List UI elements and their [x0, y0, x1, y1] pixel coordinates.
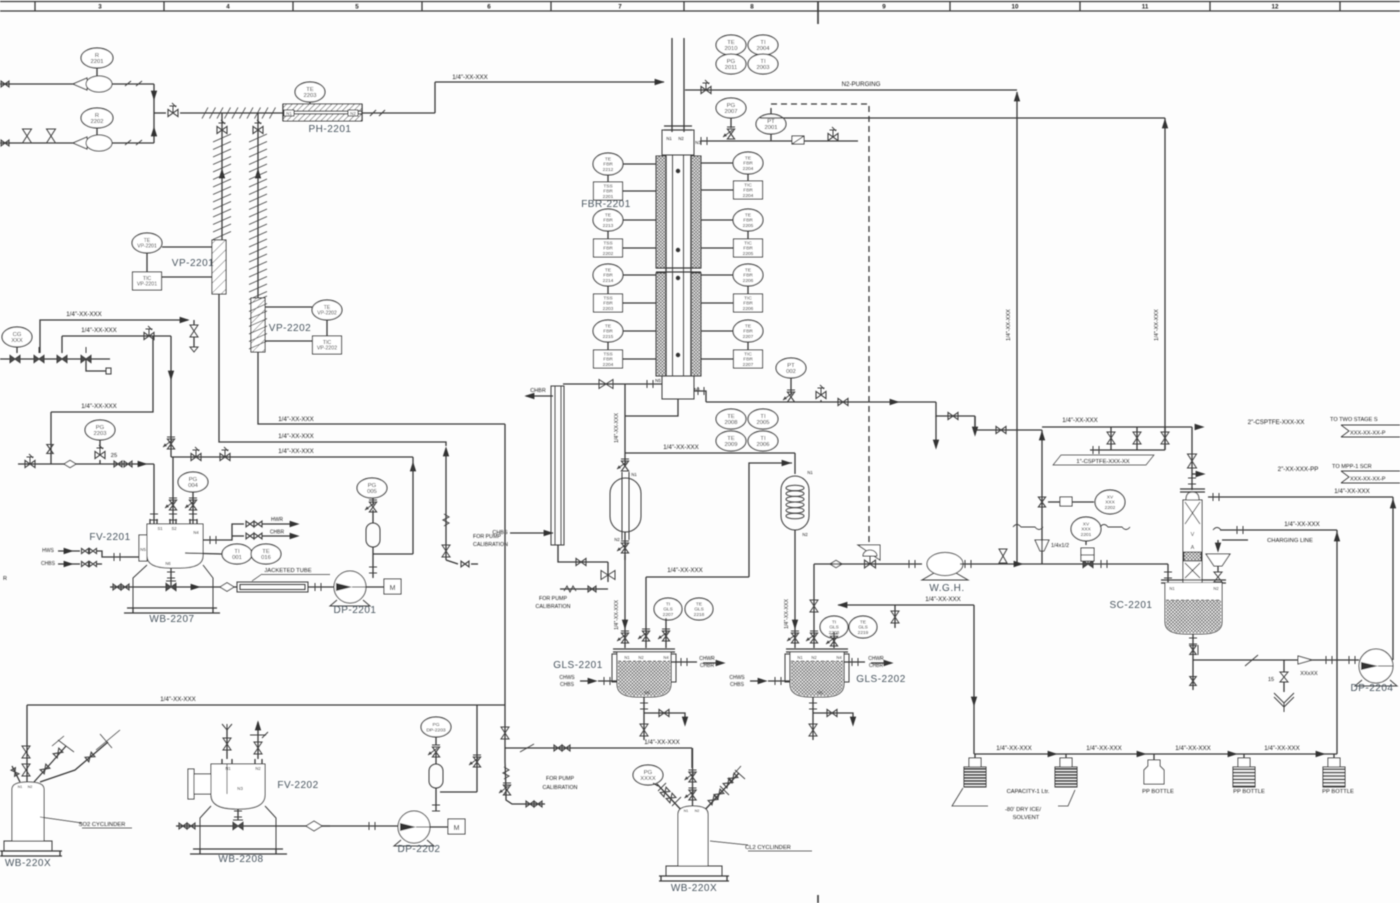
wire to DP-2202 — [322, 822, 398, 830]
transfer line from VP-2202 — [258, 352, 505, 424]
svg-text:TE: TE — [727, 40, 735, 46]
svg-text:4: 4 — [226, 4, 230, 11]
vaporizer VP-2201 — [212, 240, 226, 294]
metering pump DP-2201 — [330, 571, 370, 606]
svg-text:FBR: FBR — [743, 357, 753, 363]
pressure regulator on N3 line — [792, 136, 804, 144]
reactor column section 2 right wall — [691, 273, 701, 376]
CL2 cylinder base — [659, 866, 729, 881]
svg-text:N1: N1 — [631, 472, 637, 477]
instrument bubble TE GLS 2218 — [685, 598, 713, 620]
svg-text:2213: 2213 — [603, 223, 614, 229]
flag to two stage scrubber — [1330, 417, 1400, 437]
coil inside GLS-2202 condenser — [786, 485, 804, 519]
svg-text:M: M — [390, 585, 396, 592]
svg-text:1/4"-XX-XXX: 1/4"-XX-XXX — [925, 596, 961, 603]
flow arrow on bottle header — [1048, 751, 1058, 757]
valve above GLS-2201 condenser — [617, 459, 629, 471]
svg-text:TIC: TIC — [744, 240, 752, 246]
reactor bottom head — [655, 376, 700, 399]
instrument box TIC FBR 2207 — [701, 342, 763, 368]
WB-2207 discharge line — [110, 581, 237, 591]
rotated pipe label GLS-2202 inlet — [784, 599, 790, 629]
pipe label bottle row 4 — [1264, 745, 1300, 752]
valves on GLS-2201 spare nozzles — [638, 577, 670, 648]
reactor section flange — [656, 268, 701, 272]
drain valve on bottoms line — [1274, 660, 1294, 712]
vent header — [1042, 417, 1192, 427]
svg-text:2219: 2219 — [858, 630, 869, 636]
svg-text:FBR: FBR — [603, 246, 613, 252]
WB-2208 discharge line — [176, 820, 330, 831]
svg-text:XXX-XX-XX-P: XXX-XX-XX-P — [1350, 477, 1386, 483]
svg-text:1/4"-XX-XXX: 1/4"-XX-XXX — [644, 739, 680, 746]
svg-text:TE: TE — [605, 212, 611, 218]
relief valve on N3 line — [828, 127, 838, 141]
svg-text:11: 11 — [1142, 4, 1149, 11]
relief valve right of PT 002 — [816, 385, 826, 399]
condenser of GLS-2202 with coil — [781, 470, 813, 537]
bottle header line — [974, 753, 1337, 755]
instrument bubble TI GLS 2208 — [820, 616, 848, 638]
svg-text:FBR: FBR — [603, 162, 613, 168]
reactor center tube — [666, 155, 691, 376]
valve pair on R-2202 inlet — [23, 129, 56, 143]
control valve on feed header — [168, 103, 178, 117]
wire W.G.H. discharge — [960, 549, 1165, 568]
label DP-2201 — [334, 605, 377, 616]
svg-text:XXxXX: XXxXX — [1300, 671, 1318, 677]
svg-text:N1: N1 — [286, 111, 292, 116]
label WB-220X center — [671, 883, 717, 894]
bypass line between GLS trains — [646, 567, 749, 577]
svg-text:CHBS: CHBS — [560, 682, 575, 688]
rotameter R-2201 — [73, 76, 112, 92]
svg-text:N5: N5 — [140, 547, 146, 552]
svg-text:SOLVENT: SOLVENT — [1013, 815, 1040, 821]
metering pump DP-2202 — [394, 811, 434, 846]
wire second line to bottles — [1334, 530, 1340, 754]
manifold drop from SO2 line — [469, 705, 481, 792]
SO2 cylinder branch valves — [11, 730, 120, 782]
svg-text:CHBR: CHBR — [530, 388, 546, 394]
instrument bubble PG 2203 — [85, 420, 115, 448]
svg-text:FBR: FBR — [603, 301, 613, 307]
wire GLS-2202 CHWS inlet — [750, 677, 790, 685]
svg-text:N1: N1 — [624, 655, 630, 660]
svg-text:FBR: FBR — [603, 329, 613, 335]
svg-text:2203: 2203 — [603, 306, 614, 312]
instrument bubble PG DP-2203 — [421, 717, 451, 745]
svg-text:R: R — [95, 113, 99, 119]
svg-text:1/4"-XX-XXX: 1/4"-XX-XXX — [996, 745, 1032, 752]
svg-text:CL2 CYCLINDER: CL2 CYCLINDER — [745, 845, 791, 851]
motor box M DP-2202 — [430, 819, 465, 834]
dewar bottle 2 — [1055, 754, 1077, 787]
svg-text:2206: 2206 — [743, 278, 754, 284]
valve below PG 2007 — [723, 127, 735, 139]
svg-text:5: 5 — [355, 4, 359, 11]
svg-text:CHBR: CHBR — [869, 663, 884, 669]
svg-text:2007: 2007 — [725, 109, 738, 115]
wire second side line — [1013, 521, 1337, 534]
charging funnel — [1206, 554, 1230, 583]
instrument bubble XV XXX 2201 — [1071, 517, 1101, 545]
wire feed header to PH-2201 — [180, 112, 284, 114]
svg-text:TIC: TIC — [744, 182, 752, 188]
svg-text:VP-2201: VP-2201 — [172, 258, 214, 269]
svg-text:2207: 2207 — [743, 362, 754, 368]
transfer line from VP-2201 — [219, 294, 449, 456]
svg-text:TE: TE — [745, 323, 751, 329]
instrument bubble TE FBR 2214 — [593, 264, 656, 286]
svg-text:TIC: TIC — [744, 351, 752, 357]
svg-text:FBR-2201: FBR-2201 — [581, 199, 631, 210]
riser 1/4-XX-XXX to PT line — [1154, 118, 1168, 450]
instrument bubble TE 2008 — [716, 409, 746, 429]
wire down to FV-2201 feed line — [47, 412, 53, 464]
wire GLS-2202 CHWR outlet — [844, 658, 894, 666]
svg-text:N4: N4 — [836, 655, 842, 660]
label SC-2201 — [1110, 600, 1153, 611]
wire SC-2201 bottoms — [1189, 634, 1198, 690]
instrument bubble TE 2009 — [716, 431, 746, 451]
svg-text:1/4"-XX-XXX: 1/4"-XX-XXX — [614, 600, 620, 630]
svg-text:2202: 2202 — [1105, 505, 1116, 511]
reactor column section 1 right wall — [691, 156, 701, 268]
label VP-2201 — [172, 258, 214, 269]
svg-text:N1: N1 — [666, 136, 672, 141]
svg-text:GLS: GLS — [663, 607, 673, 613]
instrument bubble TE FBR 2207 — [701, 320, 763, 342]
wire feed valve train — [163, 336, 175, 457]
label WB-2207 — [149, 614, 194, 625]
instrument box TIC FBR 2206 — [701, 286, 763, 312]
label CHBS into jacketed pipe — [492, 530, 553, 536]
svg-text:7: 7 — [618, 4, 622, 11]
label CL2 CYCLINDER — [710, 841, 812, 851]
condenser of GLS-2201 — [610, 472, 641, 542]
SO2 manifold line — [27, 696, 505, 705]
CL2 cylinder — [678, 806, 708, 866]
svg-text:N1: N1 — [807, 470, 813, 475]
labels CHWR CHBR right of GLS-2202 — [868, 656, 884, 669]
vertical jacketed pipe — [551, 386, 564, 562]
svg-text:CHBS: CHBS — [41, 561, 56, 567]
wire reactor N3 line — [700, 137, 858, 145]
instrument bubble TE 2010 — [716, 35, 746, 55]
wire N5 outlet to static mixer — [563, 380, 662, 389]
svg-text:VP-2202: VP-2202 — [269, 323, 311, 334]
weighing balance WB-2208 — [190, 806, 287, 854]
rotated pipe label GLS-2201 inlet — [614, 600, 620, 630]
label DP-2204 — [1351, 683, 1394, 694]
svg-text:N2: N2 — [614, 537, 620, 542]
valve above DP-2202 damper — [428, 745, 440, 757]
wire crossover down to GLS-2202 condenser — [794, 453, 796, 474]
wire column overhead — [1188, 427, 1197, 490]
svg-text:JACKETED TUBE: JACKETED TUBE — [264, 568, 311, 574]
DP-2201 suction drop leg — [412, 461, 414, 554]
svg-text:DP-2204: DP-2204 — [1351, 683, 1394, 694]
label GLS-2202 — [856, 674, 906, 685]
VP-2202 transfer downcomer — [501, 424, 509, 748]
svg-text:XV: XV — [1083, 521, 1090, 527]
svg-text:PG: PG — [96, 425, 105, 431]
svg-text:N1: N1 — [684, 809, 689, 813]
svg-text:PG: PG — [727, 103, 736, 109]
wire SO2 cylinder riser — [22, 705, 30, 783]
wire W.G.H. suction — [814, 560, 922, 568]
label WB-2208 — [218, 854, 263, 865]
wire jacketed tube to DP-2201 — [308, 583, 334, 591]
svg-text:GLS-2202: GLS-2202 — [856, 674, 906, 685]
label PP BOTTLE 2 — [1233, 789, 1265, 795]
svg-text:TI: TI — [760, 436, 766, 442]
pump calibration branch lower — [499, 748, 545, 807]
svg-text:XXX: XXX — [1105, 500, 1115, 506]
labels CHWS CHBS left of GLS-2201 — [559, 675, 575, 688]
wire feed line into R-2201 — [0, 81, 73, 87]
svg-text:1/4"-XX-XXX: 1/4"-XX-XXX — [1062, 417, 1098, 424]
wire CHBR return from jacketed pipe — [524, 388, 553, 399]
label WB-220X left — [5, 858, 51, 869]
vent drain legs — [933, 402, 978, 450]
instrument bubble TE FBR 2206 — [701, 264, 763, 286]
svg-text:2203: 2203 — [304, 93, 317, 99]
svg-text:TI: TI — [760, 414, 766, 420]
branch to MPP-1 scrubber — [1192, 466, 1318, 477]
svg-text:V: V — [1191, 532, 1195, 538]
svg-text:2010: 2010 — [725, 46, 738, 52]
reactor top tubes — [672, 38, 684, 132]
svg-text:SC-2201: SC-2201 — [1110, 600, 1153, 611]
svg-text:2207: 2207 — [663, 612, 674, 618]
W.G.H. riser to vent header — [1039, 430, 1045, 564]
wire PT line to right riser — [760, 117, 1165, 119]
svg-text:2215: 2215 — [603, 334, 614, 340]
instrument bubble TE FBR 2204 — [701, 152, 763, 174]
svg-text:002: 002 — [786, 369, 796, 375]
wire riser to reactor feed — [435, 79, 665, 113]
svg-text:CHWR: CHWR — [699, 656, 715, 662]
svg-text:CHWR: CHWR — [868, 656, 884, 662]
charging line arrow and label — [1215, 538, 1313, 553]
svg-text:N1: N1 — [797, 655, 803, 660]
svg-text:1/4"-XX-XXX: 1/4"-XX-XXX — [1334, 488, 1370, 495]
svg-text:1/4"-XX-XXX: 1/4"-XX-XXX — [1006, 309, 1012, 341]
reactor column section 1 left wall — [656, 156, 666, 268]
GLS-2201 drain branch — [644, 709, 688, 726]
svg-text:2"-XX-XXX-PP: 2"-XX-XXX-PP — [1278, 466, 1319, 473]
instrument bubble TI 2004 — [748, 35, 778, 55]
instrument bubble TE GLS 2219 — [849, 616, 877, 638]
wire GLS-2202 bottom outlet — [809, 697, 817, 740]
flow arrow on bottle header — [1316, 751, 1326, 757]
purge gas valve row — [0, 347, 110, 363]
instrument box TIC VP-2202 — [265, 320, 342, 354]
svg-text:2207: 2207 — [743, 334, 754, 340]
svg-text:WB-2207: WB-2207 — [149, 614, 194, 625]
wire GLS-2201 bottom outlet — [640, 697, 648, 740]
svg-text:1/4"-XX-XXX: 1/4"-XX-XXX — [1264, 745, 1300, 752]
instrument bubble CG XXX — [2, 327, 32, 353]
scrubber drum SC-2201 — [1161, 580, 1226, 634]
svg-text:2003: 2003 — [757, 65, 770, 71]
svg-text:1/4"-XX-XXX: 1/4"-XX-XXX — [452, 74, 488, 81]
instrument box TIC VP-2201 — [133, 253, 213, 290]
svg-text:R: R — [95, 53, 99, 59]
label FV-2202 — [277, 780, 318, 791]
svg-text:FBR: FBR — [603, 218, 613, 224]
svg-text:FBR: FBR — [743, 301, 753, 307]
DP-2202 calibration line — [440, 791, 477, 793]
svg-text:1/4"-XX-XXX: 1/4"-XX-XXX — [81, 403, 117, 410]
svg-text:2202: 2202 — [91, 119, 104, 125]
instrument bubble R 2202 — [81, 108, 113, 136]
svg-text:N6: N6 — [644, 690, 650, 695]
cone reducer — [1298, 656, 1312, 664]
SO2 cylinder — [12, 782, 44, 841]
svg-text:2001: 2001 — [765, 125, 778, 131]
svg-text:N1: N1 — [225, 766, 231, 771]
svg-text:TIC: TIC — [744, 295, 752, 301]
svg-text:S2: S2 — [171, 526, 177, 531]
collection bottle PP 5 — [1323, 754, 1345, 787]
instrument bubble PG 004 — [178, 472, 208, 498]
svg-text:XXX: XXX — [1081, 527, 1091, 533]
gas pump W.G.H. — [922, 553, 968, 581]
DP-2201 discharge damper — [366, 494, 413, 578]
svg-text:1/4"-XX-XXX: 1/4"-XX-XXX — [614, 413, 620, 443]
preheater PH-2201 — [283, 104, 362, 121]
svg-text:N2: N2 — [811, 655, 817, 660]
svg-text:WB-2208: WB-2208 — [218, 854, 263, 865]
instrument bubble PG 005 — [357, 478, 387, 498]
wire N2 purge line — [685, 80, 1020, 101]
labels 15 and XXxXX — [1268, 671, 1318, 683]
vaporizer VP-2202 — [251, 298, 265, 352]
svg-text:001: 001 — [232, 555, 242, 561]
riser 1/4-XX-XXX to N2 purge — [1006, 92, 1017, 564]
svg-text:CHBS: CHBS — [730, 682, 745, 688]
svg-text:PG: PG — [189, 477, 198, 483]
svg-text:FV-2202: FV-2202 — [277, 780, 318, 791]
svg-text:2"-CSPTFE-XXX-XX: 2"-CSPTFE-XXX-XX — [1248, 419, 1305, 426]
transfer line three — [171, 447, 416, 471]
svg-text:FBR: FBR — [743, 246, 753, 252]
wire purge line mid — [62, 326, 171, 353]
svg-text:N2: N2 — [695, 809, 700, 813]
svg-text:TSS: TSS — [603, 240, 612, 246]
left edge text fragment — [3, 576, 7, 582]
wire bottoms to DP-2204 — [1193, 655, 1359, 666]
SO2 cylinder base — [0, 841, 62, 856]
wire into SC-2201 drum — [1101, 560, 1172, 583]
wire condenser crossover — [625, 444, 795, 453]
wire reactor bottom drain — [625, 399, 678, 416]
svg-text:2204: 2204 — [743, 193, 754, 199]
valve above damper — [365, 500, 377, 512]
svg-text:2204: 2204 — [743, 166, 754, 172]
flow arrow on bottle header — [1228, 751, 1238, 757]
svg-text:TE: TE — [696, 601, 702, 607]
pipe label bottle row 1 — [996, 745, 1032, 752]
control valve XV 2201 — [1081, 548, 1094, 568]
label W.G.H. — [929, 583, 964, 594]
svg-text:VP-2202: VP-2202 — [317, 346, 337, 352]
svg-text:TI: TI — [760, 59, 766, 65]
pipe label bottle row 3 — [1175, 745, 1211, 752]
instrument bubble PG 2011 — [716, 54, 746, 74]
label FV-2201 — [89, 532, 130, 543]
svg-text:1/4"-XX-XXX: 1/4"-XX-XXX — [81, 327, 117, 334]
labels CHWR CHBR right of GLS-2201 — [699, 656, 715, 669]
separator GLS-2202 — [785, 649, 849, 697]
reactor column section 2 left wall — [656, 273, 666, 376]
svg-text:12: 12 — [1272, 4, 1279, 11]
svg-text:005: 005 — [367, 489, 377, 495]
svg-text:9: 9 — [882, 4, 886, 11]
svg-text:W.G.H.: W.G.H. — [929, 583, 964, 594]
wire GLS-2201 CHWS inlet — [580, 677, 617, 685]
svg-text:2201: 2201 — [603, 194, 614, 200]
svg-text:GLS: GLS — [694, 607, 704, 613]
svg-text:VP-2201: VP-2201 — [137, 282, 157, 288]
svg-text:PP BOTTLE: PP BOTTLE — [1322, 789, 1354, 795]
instrument box TIC FBR 2204 — [701, 174, 763, 199]
svg-text:GLS-2201: GLS-2201 — [553, 660, 603, 671]
svg-text:N2: N2 — [28, 785, 33, 789]
svg-text:2006: 2006 — [757, 442, 770, 448]
svg-text:TE: TE — [727, 436, 735, 442]
svg-text:TE: TE — [605, 267, 611, 273]
svg-text:GLS: GLS — [829, 625, 839, 631]
wire FV-2201 bottom outlet — [167, 568, 175, 586]
weighing balance WB-2207 — [124, 565, 220, 613]
wire reactor vent header — [706, 398, 936, 405]
svg-text:TE: TE — [262, 549, 270, 555]
svg-text:1/4"-XX-XXX: 1/4"-XX-XXX — [278, 433, 314, 440]
label PP BOTTLE 1 — [1142, 789, 1174, 795]
svg-text:2205: 2205 — [743, 251, 754, 257]
svg-text:XXX: XXX — [11, 338, 23, 344]
manifold line 1in CSPTFE — [1090, 446, 1165, 454]
svg-text:2206: 2206 — [743, 306, 754, 312]
svg-text:TE: TE — [745, 212, 751, 218]
svg-text:004: 004 — [188, 483, 198, 489]
svg-text:TSS: TSS — [603, 183, 612, 189]
svg-text:2008: 2008 — [725, 420, 738, 426]
svg-text:CHBR: CHBR — [270, 530, 285, 536]
jacketed tube — [237, 568, 330, 592]
pipe label 1/4-XX-XXX feed — [452, 74, 488, 81]
svg-text:TI: TI — [832, 619, 836, 625]
svg-text:1/4"-XX-XXX: 1/4"-XX-XXX — [278, 448, 314, 455]
svg-text:PT: PT — [787, 363, 795, 369]
svg-text:PG: PG — [644, 770, 653, 776]
svg-text:FOR PUMP: FOR PUMP — [473, 534, 501, 540]
instrument bubble TE FBR 2205 — [701, 209, 763, 231]
svg-text:N4: N4 — [193, 530, 199, 535]
wire HWS CHBS into FV-2201 — [41, 548, 139, 567]
feed vessel FV-2202 — [188, 759, 265, 809]
svg-text:TI: TI — [760, 40, 766, 46]
reactor top flange — [664, 126, 692, 130]
wire CL2 feed drop — [691, 748, 693, 768]
svg-text:PP BOTTLE: PP BOTTLE — [1233, 789, 1265, 795]
svg-text:1/4x1/2: 1/4x1/2 — [1051, 543, 1069, 549]
